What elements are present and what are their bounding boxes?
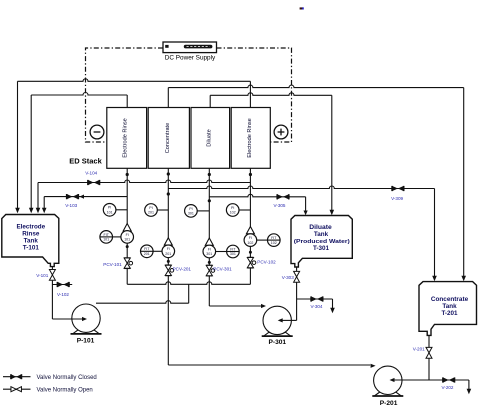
svg-text:V-309: V-309	[391, 196, 403, 201]
svg-text:PCV-102: PCV-102	[257, 260, 276, 265]
wire L1 riser from cell 4	[249, 81, 251, 107]
svg-text:Tank: Tank	[442, 303, 457, 310]
svg-text:Electrode: Electrode	[16, 224, 45, 231]
wire feed cell4	[249, 168, 251, 226]
svg-text:V-103: V-103	[65, 203, 77, 208]
wire V-104 drop to T-101	[37, 183, 39, 209]
valve V-102	[57, 282, 63, 287]
wire feed cell2	[167, 168, 169, 238]
svg-text:V-102: V-102	[57, 292, 69, 297]
junction dot above PCV-102	[249, 251, 252, 254]
svg-text:Valve Normally Closed: Valve Normally Closed	[37, 375, 97, 381]
legend valve normally closed	[3, 376, 31, 378]
wire P-201 feed main	[168, 364, 370, 366]
valve V-202	[443, 377, 449, 382]
pump P-101	[73, 330, 100, 334]
svg-text:FI: FI	[126, 233, 129, 237]
valve V-309	[392, 186, 398, 191]
svg-text:FIT: FIT	[271, 236, 277, 240]
junction dot above PCV-101	[126, 245, 129, 248]
valve V-304	[311, 296, 317, 301]
svg-text:102: 102	[271, 241, 277, 245]
control valve PCV-301	[206, 264, 212, 266]
svg-text:FIT: FIT	[104, 233, 110, 237]
junction dot feed cell3 upper	[208, 173, 211, 176]
wire L2 drop to T-101	[30, 95, 32, 208]
gauge PI-201	[145, 204, 158, 217]
stray mark	[300, 7, 304, 9]
svg-text:301: 301	[230, 252, 236, 256]
tank T-201	[419, 282, 477, 336]
svg-text:201: 201	[148, 211, 154, 215]
svg-text:Tank: Tank	[24, 238, 39, 245]
rotameter FI-101	[123, 224, 131, 232]
svg-text:PI: PI	[149, 206, 152, 210]
svg-text:Electrode Rinse: Electrode Rinse	[247, 118, 253, 158]
wire L4 riser from cell 3	[209, 95, 211, 107]
svg-text:ED Stack: ED Stack	[69, 159, 102, 166]
svg-text:V-305: V-305	[273, 203, 285, 208]
tank T-101	[2, 215, 59, 267]
control valve PCV-201	[165, 264, 171, 266]
wire P-301 discharge	[209, 305, 261, 307]
wire V-102 drain	[52, 284, 72, 286]
legend valve normally open	[3, 388, 31, 390]
svg-text:Electrode Rinse: Electrode Rinse	[123, 118, 129, 158]
svg-text:T-301: T-301	[313, 245, 330, 252]
svg-text:T-201: T-201	[441, 310, 458, 317]
svg-text:FI: FI	[208, 247, 211, 251]
valve V-103	[67, 194, 73, 199]
ED stack cell 2 Concentrate	[148, 108, 189, 169]
pump P-201	[374, 392, 401, 396]
wire V-103 line	[44, 196, 127, 198]
svg-text:V-303: V-303	[282, 275, 294, 280]
svg-text:V-201: V-201	[413, 347, 425, 352]
svg-text:301: 301	[206, 252, 212, 256]
svg-text:Concentrate: Concentrate	[431, 296, 469, 303]
svg-text:Diluate: Diluate	[309, 224, 332, 231]
wire L1 cell4 outlet to T-101 (top)	[18, 79, 251, 82]
svg-text:FI: FI	[249, 236, 252, 240]
wire T-201 outlet	[428, 335, 430, 347]
valve V-305	[277, 194, 283, 199]
svg-text:V-304: V-304	[310, 304, 322, 309]
wire L4 cell3 outlet to T-301	[210, 93, 332, 96]
wire feed cell1	[126, 168, 128, 223]
junction dot feed cell4	[249, 173, 252, 176]
ED stack cell 4 Electrode Rinse	[231, 108, 270, 169]
svg-text:PI: PI	[189, 207, 192, 211]
wire P-101 suction	[52, 318, 82, 320]
svg-text:PCV-201: PCV-201	[173, 267, 192, 272]
svg-text:102: 102	[230, 211, 236, 215]
valve V-101	[49, 270, 55, 275]
svg-text:PCV-301: PCV-301	[213, 266, 232, 271]
control valve PCV-102	[247, 257, 253, 259]
gauge PI-101	[103, 204, 116, 217]
transmitter FIT-201	[141, 245, 154, 258]
junction dot feed cell2 upper	[167, 172, 170, 175]
svg-text:Concentrate: Concentrate	[165, 123, 171, 153]
wire DC supply dash-dot right run	[217, 48, 292, 142]
junction dot feed cell2 lower	[167, 192, 170, 195]
wire V-104 bypass line	[38, 180, 250, 183]
wire L2 riser from cell 1	[126, 95, 128, 108]
svg-text:Tank: Tank	[314, 231, 329, 238]
junction dot above PCV-301	[208, 261, 211, 264]
svg-text:Diluate: Diluate	[206, 129, 212, 146]
svg-text:101: 101	[124, 238, 130, 242]
wire rinse header	[127, 282, 250, 285]
svg-text:101: 101	[103, 238, 109, 242]
svg-text:PI: PI	[231, 206, 234, 210]
rotameter FI-102	[246, 227, 254, 234]
wire P-301 suction	[296, 299, 298, 320]
wire T-101 outlet	[51, 267, 53, 270]
svg-text:T-101: T-101	[23, 245, 40, 252]
svg-text:201: 201	[144, 252, 150, 256]
wire V-202 drain	[429, 379, 469, 381]
wire L3 drop to T-201	[463, 88, 465, 277]
junction dot feed cell3 lower	[208, 199, 211, 202]
svg-text:P-301: P-301	[268, 339, 286, 346]
gauge PI-301	[185, 205, 198, 218]
wire V-103 drop to T-101	[43, 197, 45, 209]
svg-text:PCV-101: PCV-101	[103, 262, 122, 267]
valve V-201	[426, 347, 432, 352]
wire feed cell3	[208, 168, 210, 238]
valve V-104	[88, 180, 94, 185]
ED stack cell 3 Diluate	[191, 108, 230, 169]
junction dot above PCV-201	[167, 260, 170, 263]
valve V-303	[294, 271, 300, 276]
junction dot feed cell1	[126, 173, 129, 176]
svg-text:Rinse: Rinse	[22, 231, 40, 238]
svg-text:Valve Normally Open: Valve Normally Open	[37, 388, 93, 394]
control valve PCV-101	[124, 257, 130, 259]
wire V-304 drain	[297, 298, 333, 300]
wire V-305 line to T-301	[209, 194, 305, 197]
svg-text:P-201: P-201	[380, 400, 398, 407]
wire T-301 outlet	[296, 267, 298, 271]
transmitter FIT-301	[227, 245, 240, 258]
svg-text:V-104: V-104	[85, 171, 97, 176]
svg-text:PI: PI	[108, 206, 111, 210]
svg-text:201: 201	[165, 252, 171, 256]
wire L1 drop to T-101	[17, 81, 19, 208]
wire V-309 line to T-201	[168, 186, 434, 189]
svg-text:V-101: V-101	[36, 273, 48, 278]
electrode positive terminal	[274, 125, 288, 139]
svg-text:P-101: P-101	[77, 337, 95, 344]
wire P-201 suction	[394, 379, 429, 381]
svg-text:102: 102	[247, 241, 253, 245]
wire V-305 drop to T-301	[305, 197, 307, 211]
rotameter FI-301	[205, 238, 213, 245]
gauge PI-102	[226, 204, 239, 217]
wire V-309 drop to T-201	[434, 189, 436, 277]
svg-text:101: 101	[107, 211, 113, 215]
wire L3 cell2 outlet to T-201	[168, 85, 463, 87]
wire L3 riser from cell 2	[167, 88, 169, 108]
wire DC supply dash-dot left run	[86, 48, 164, 142]
svg-text:FIT: FIT	[144, 247, 150, 251]
DC power supply unit	[163, 42, 217, 53]
svg-text:301: 301	[188, 212, 194, 216]
transmitter FIT-101	[100, 231, 113, 244]
pump P-301	[264, 332, 291, 336]
wire L2 cell1 outlet to T-101	[31, 93, 127, 96]
electrode negative terminal	[90, 125, 104, 139]
wire P-101 discharge	[96, 301, 189, 304]
wire L4 drop to T-301	[331, 95, 333, 210]
tank T-301	[291, 216, 352, 268]
svg-text:V-202: V-202	[441, 385, 453, 390]
rotameter FI-201	[164, 238, 172, 245]
svg-text:FI: FI	[167, 247, 170, 251]
ED stack cell 1 Electrode Rinse	[107, 108, 147, 169]
svg-text:DC Power Supply: DC Power Supply	[165, 55, 216, 62]
transmitter FIT-102	[268, 234, 281, 247]
svg-text:FIT: FIT	[230, 247, 236, 251]
